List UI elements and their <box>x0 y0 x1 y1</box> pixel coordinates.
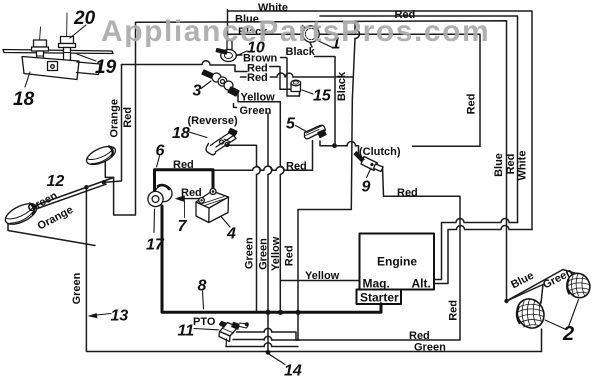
svg-text:Red: Red <box>247 72 268 84</box>
svg-text:Red: Red <box>465 94 477 115</box>
svg-text:18: 18 <box>13 89 35 110</box>
fuse holder (item 15) <box>291 80 313 94</box>
connector (item 10) <box>216 41 247 62</box>
leader 11 <box>194 329 218 330</box>
svg-text:Red: Red <box>397 187 418 199</box>
wire green label: corner down <box>234 104 269 353</box>
svg-text:Green: Green <box>414 342 446 354</box>
headlight A (item 12) <box>84 143 118 168</box>
svg-text:Blue: Blue <box>493 153 505 177</box>
junction dot green2 at green bottom <box>266 350 271 355</box>
tail lamp 1 (item 2) <box>512 294 549 333</box>
svg-text:11: 11 <box>178 323 195 340</box>
interlock switch body left <box>32 40 49 67</box>
wire orange: left rail top corner across to connector area <box>122 61 248 72</box>
seat switch (item 5) <box>296 125 327 139</box>
junction dot clutch net <box>332 143 337 148</box>
leader 7 <box>184 202 186 218</box>
svg-text:7: 7 <box>178 218 188 235</box>
bump PTO net B over green <box>264 336 272 340</box>
svg-text:14: 14 <box>284 363 302 379</box>
wire Blue: left rail top across to right side <box>136 21 507 301</box>
svg-text:Red: Red <box>181 187 202 199</box>
leader 5 <box>296 126 306 132</box>
interlock switch assembly (items 18,19,20) top-left <box>3 13 113 87</box>
wire Red horizontal into Alt. with hops <box>435 219 518 280</box>
svg-text:Red: Red <box>122 107 134 128</box>
bracket tab right <box>77 62 101 75</box>
svg-text:Green: Green <box>257 238 269 270</box>
svg-text:17: 17 <box>146 237 165 254</box>
wire brown stub left <box>236 54 242 56</box>
wire White horizontal into Alt. with hops over verticals <box>435 226 532 284</box>
starter box <box>357 290 402 305</box>
bump PTO net A over green <box>264 328 272 332</box>
interlock switch body right <box>59 37 76 64</box>
engine box <box>360 234 435 290</box>
headlight feed diagonals <box>12 178 114 218</box>
svg-text:Red: Red <box>409 330 430 342</box>
PTO switch (item 11) <box>194 322 249 347</box>
svg-text:Orange: Orange <box>108 99 120 138</box>
svg-text:Engine: Engine <box>377 255 417 269</box>
arrow head battery red <box>176 196 185 202</box>
mounting blade <box>3 50 113 54</box>
wire red harness: thin from battery corner to seat switch, bumps <box>155 141 313 171</box>
leader 13 with arrow <box>92 314 111 316</box>
wire brown: right end down around to fuse 15 right terminal <box>281 58 300 97</box>
wire red 2: to red vertical with hops over fuse legs <box>270 76 353 78</box>
headlight B (item 12) <box>2 200 39 229</box>
svg-text:Red: Red <box>284 245 296 266</box>
wire clutch net: junction to corner with hop over red vertical <box>335 146 359 157</box>
svg-text:Black: Black <box>336 71 348 101</box>
svg-text:(Reverse): (Reverse) <box>188 115 238 127</box>
thick cable: solenoid bottom down and across to starter <box>162 206 381 312</box>
bracket hole circle <box>51 65 55 69</box>
leader 3 <box>201 81 211 89</box>
svg-text:Starter: Starter <box>360 291 399 305</box>
wire green rail top junction on headlight wire <box>84 185 88 189</box>
wire clutch net: label gap then to right vertical <box>413 145 481 147</box>
svg-text:Red: Red <box>173 159 194 171</box>
svg-text:8: 8 <box>198 278 207 295</box>
wire Red: key switch area to right side, down to Alt. line <box>320 16 518 223</box>
wire green bottom: left rail down, across bottom, up to tail lamp <box>86 187 541 351</box>
wire red 1: from label right, down to fuse 15 left terminal <box>270 67 291 90</box>
wire black: key switch bottom stub <box>310 43 312 48</box>
leader 9 <box>367 168 372 178</box>
svg-text:Yellow: Yellow <box>270 236 282 271</box>
bump: reverse wire hops red harness <box>257 166 261 175</box>
leader 20 <box>70 25 86 38</box>
bumps on red harness over three verticals <box>253 166 285 170</box>
wire red battery arrow wire <box>178 198 199 200</box>
bump: green hops over red harness wire <box>268 166 272 175</box>
wire White: label bracket to right side, down to Alt. <box>228 11 533 230</box>
leader 4 <box>221 217 230 228</box>
svg-text:Mag.: Mag. <box>363 277 390 291</box>
leader 10 <box>236 51 247 56</box>
wire label bracket vertical <box>227 10 229 42</box>
leader 19 <box>77 54 96 61</box>
wire red rail: from blue wire down to headlight A <box>105 22 135 215</box>
svg-text:PTO: PTO <box>193 316 216 328</box>
wire Red ignition: key switch right to black vertical right side <box>320 34 480 146</box>
wire orange left rail vertical <box>105 65 122 183</box>
leader 15 <box>302 90 313 94</box>
svg-text:Alt.: Alt. <box>412 277 431 291</box>
wire tail lamp 1 stub <box>507 285 544 304</box>
wire red vertical: from blue wire down, jog left, down to bottom as Red <box>298 21 355 340</box>
leader 2 double <box>545 300 579 330</box>
bumps red 2 over fuse legs <box>277 73 293 77</box>
leader 8 <box>203 291 204 309</box>
svg-text:White: White <box>516 151 528 181</box>
svg-text:(Clutch): (Clutch) <box>359 146 401 158</box>
switch 20 guide line right <box>66 13 69 47</box>
svg-text:3: 3 <box>193 83 202 100</box>
svg-text:Yellow: Yellow <box>241 92 276 104</box>
leader 6 <box>157 156 160 167</box>
wire yellow branch to engine Mag. <box>280 280 359 282</box>
wire PTO net C to green bottom junction <box>226 346 298 348</box>
svg-text:Yellow: Yellow <box>305 270 340 282</box>
solenoid (item 17) <box>148 156 185 233</box>
wire red 2 stub from connector 3 <box>241 76 247 78</box>
svg-text:12: 12 <box>47 173 65 190</box>
switch 20 guide line left <box>39 27 41 48</box>
svg-text:19: 19 <box>95 57 117 78</box>
svg-text:Red: Red <box>505 154 517 175</box>
wire black: after label to vertical down to clutch junction <box>315 57 336 145</box>
bump: yellow hops over red harness wire <box>280 166 284 175</box>
thick cable: solenoid top to battery <box>155 170 214 191</box>
connector (item 3) <box>201 70 239 96</box>
svg-text:15: 15 <box>313 88 332 105</box>
svg-text:20: 20 <box>73 8 96 29</box>
wire green 1 / reverse switch wire: down to thick cable <box>227 145 257 311</box>
bump PTO net C over green <box>264 343 272 347</box>
wire Black/ignition: bracket to key switch <box>228 33 302 35</box>
junction dot orange tap <box>102 180 106 184</box>
svg-text:White: White <box>258 2 288 14</box>
svg-text:Red: Red <box>448 300 460 321</box>
leader 17 <box>153 209 156 233</box>
svg-text:13: 13 <box>111 308 129 325</box>
reverse switch (item 18) <box>189 129 237 155</box>
wire PTO net B joins red bottom <box>233 339 299 342</box>
svg-text:AppliancePartsPros.com: AppliancePartsPros.com <box>101 15 490 48</box>
svg-text:Green: Green <box>244 237 256 269</box>
svg-text:Blue: Blue <box>509 270 536 292</box>
headlight B hook <box>8 218 95 246</box>
leader 18 top-left <box>25 72 30 87</box>
wire blue diagonal to tail lamp 2 <box>507 270 577 302</box>
svg-text:5: 5 <box>286 116 296 133</box>
bracket hole square <box>48 62 58 71</box>
leader 14 <box>268 354 285 365</box>
wire yellow vertical: down to thick cable <box>279 102 281 312</box>
leader 18 reverse <box>189 132 207 138</box>
svg-text:6: 6 <box>156 143 165 160</box>
svg-text:2: 2 <box>562 323 574 345</box>
svg-text:Red: Red <box>286 161 307 173</box>
svg-text:Green: Green <box>240 105 272 117</box>
engine block <box>357 234 435 305</box>
bump: red vertical hops over ignition wire <box>355 30 359 39</box>
svg-text:Green: Green <box>71 272 83 304</box>
tail lamp 2 (item 2) <box>563 269 594 301</box>
wire yellow label 1: under label, corner down <box>235 89 281 102</box>
leader 1 <box>319 41 333 48</box>
battery (item 4) <box>196 189 230 228</box>
bump: clutch net hops red vertical <box>347 142 355 146</box>
junction dot blue at lamp node <box>504 299 508 303</box>
clutch switch (item 9) <box>354 152 383 178</box>
wire seat switch right pin down to clutch net <box>320 141 335 146</box>
wire PTO net A <box>237 332 297 340</box>
wire clutch switch lower pin down and right to Red label wire <box>296 167 460 341</box>
svg-text:4: 4 <box>226 226 236 243</box>
PTO switch bottom stem <box>225 339 228 347</box>
mounting bracket plate <box>22 57 79 80</box>
junction dots on starter cable <box>265 310 270 315</box>
svg-text:9: 9 <box>362 179 371 196</box>
svg-text:18: 18 <box>172 125 190 142</box>
key switch (item 1) <box>303 26 333 48</box>
thick battery/starter cables <box>155 170 382 312</box>
